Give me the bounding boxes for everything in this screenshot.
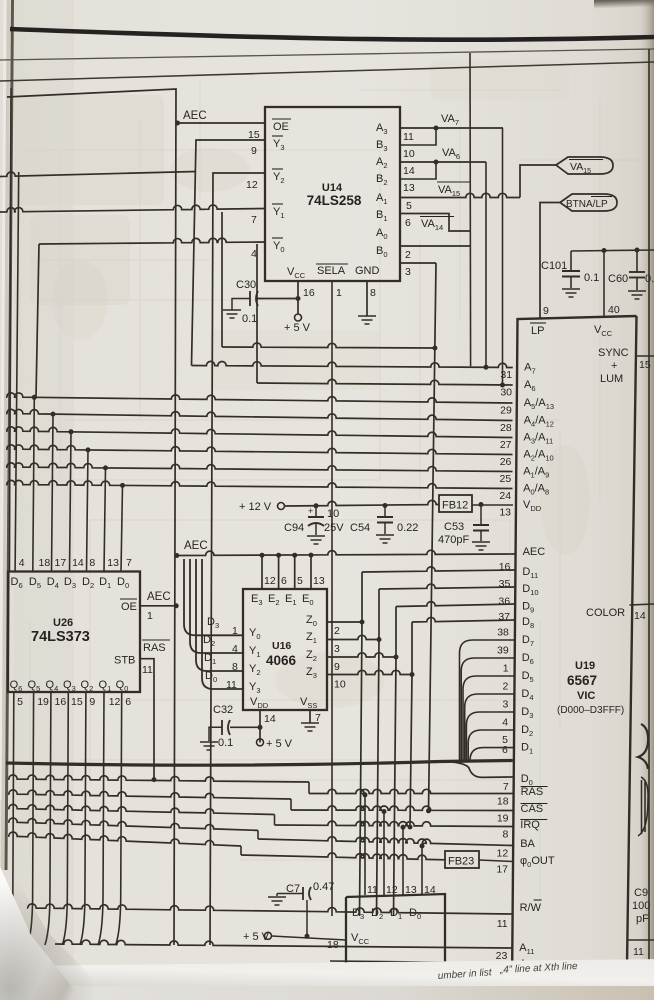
wire R/W row — [28, 904, 513, 914]
node Z0 junction — [360, 620, 365, 625]
node Y1 loop tie — [432, 346, 437, 351]
thick top rule — [10, 29, 654, 40]
wire phi0OUT row step-down — [240, 846, 242, 855]
frame rule — [0, 62, 654, 81]
wire D3 input to Y3 — [184, 559, 243, 635]
wire Y1 pin7 (long bus to left edge) — [0, 205, 265, 212]
ferrite bead FB12 — [439, 495, 472, 512]
wire RAS row step-down — [308, 782, 310, 794]
node AEC top junction — [175, 121, 180, 126]
wire D10 vertical — [378, 589, 380, 640]
wire pin14 A2 VA6 net — [400, 161, 486, 163]
wire address bus row 3 — [6, 427, 513, 438]
page left edge — [6, 0, 13, 870]
wire VIC data fan y730 — [468, 730, 514, 760]
node Z3 junction — [410, 672, 415, 677]
wire U26 D-input riser 2 — [52, 414, 54, 571]
wire bottom chip data riser 2 — [383, 812, 385, 896]
wire D0 input to Y0 — [202, 559, 243, 689]
ferrite bead FB23 — [445, 851, 479, 868]
node Z3 net on IRQ row — [408, 825, 413, 830]
wire U26 D-input riser 6 — [121, 486, 123, 572]
wire U26 D-input riser 1 — [33, 397, 35, 571]
node pin11-10 tie — [434, 126, 439, 131]
wire U26 D-input riser 4 — [87, 450, 89, 572]
wire bottom chip data riser 1 — [364, 795, 366, 895]
wire U26 Q6 output — [8, 692, 14, 945]
node bus row 1 junction — [32, 395, 37, 400]
wire U14 Y3 pin9 — [192, 140, 266, 366]
node A6 junction — [500, 383, 505, 388]
wire VCC pin40 — [603, 251, 605, 319]
wire phi0OUT row post-step — [241, 853, 445, 860]
wire U26 Q0 output — [116, 692, 122, 945]
IC bottom buffer box — [346, 894, 445, 1000]
wire pin10 B3 — [400, 128, 436, 145]
wire address bus row 4 — [6, 445, 513, 455]
+12V terminal — [278, 503, 285, 510]
wire Y2 pin12 — [210, 173, 265, 945]
wire address bus row 2 — [6, 409, 513, 420]
node E0 tap — [309, 553, 314, 558]
+5V terminal bottom — [265, 932, 272, 939]
wire U26 Q1 output — [98, 692, 104, 945]
wire VSS pin7 — [309, 710, 311, 723]
wire Z1 net vertical — [377, 640, 380, 917]
svg-text:„4” line at Xth line: „4” line at Xth line — [499, 961, 579, 976]
node riser 1 junction — [363, 792, 368, 797]
wire address bus row 1 — [6, 393, 513, 403]
wire bottom chip data riser 3 — [402, 827, 404, 895]
wire U14 GND pin8 — [366, 281, 368, 316]
wire A6 vertical to pin30 — [502, 128, 504, 385]
wire pin3 B0 long vertical — [400, 262, 436, 264]
wire Z2 out — [327, 653, 396, 657]
cable brace lower — [638, 777, 648, 836]
wire VIC data fan y658 — [461, 658, 515, 760]
wire RAS row pre-step — [8, 775, 309, 782]
wire A10 row partial — [330, 961, 512, 963]
wire U26 Q3 output — [62, 692, 68, 945]
wire VDD pin14 — [259, 710, 261, 743]
wire VIC data fan y747.6 — [470, 748, 514, 761]
wire VIC data fan y640 — [460, 640, 515, 760]
wire VA15 flag riser — [520, 165, 556, 198]
+5V terminal U14 — [295, 314, 302, 321]
IC U19 6567 VIC box — [512, 316, 637, 988]
wire A11 row — [55, 940, 512, 948]
wire pin 11 right stub — [628, 939, 654, 941]
ground VSS — [301, 722, 319, 724]
wire U16 enable riser pin12 — [261, 555, 263, 589]
thin rule under top — [0, 49, 654, 60]
wire BA row post-step — [258, 837, 513, 846]
wire VIC data fan y676 — [463, 676, 515, 760]
wire right edge vertical bus — [648, 49, 650, 968]
wire A7 vertical to pin31 — [485, 162, 487, 367]
wire U26 Q4 output — [45, 692, 51, 945]
wire CAS row post-step — [291, 806, 513, 811]
wire AEC top feed — [7, 89, 176, 945]
wire Z2 net vertical — [394, 657, 397, 916]
wire IRQ row pre-step — [8, 804, 275, 814]
wire VIC data fan y694 — [465, 694, 515, 760]
wire +12V rail — [285, 500, 440, 506]
wire Z0 out — [327, 621, 362, 623]
wire U16 enable riser pin6 — [278, 555, 280, 589]
wire CAS row step-down — [290, 799, 292, 810]
wire D11 vertical — [361, 572, 363, 622]
wire U26 D-input riser 3 — [70, 432, 72, 572]
wire pin13 B2 — [400, 162, 436, 179]
node pin3 on CAS row — [426, 808, 431, 813]
IC U26 74LS373 box — [8, 572, 140, 693]
wire bottom chip data riser 4 — [421, 846, 423, 895]
node AEC bus left — [174, 553, 179, 558]
ground U14 pin8 — [358, 315, 376, 317]
wire D10 row — [379, 584, 515, 589]
wire VIC data fan y712 — [466, 712, 514, 760]
node A7 junction — [484, 365, 489, 370]
wire D11 row — [362, 567, 515, 572]
node STB on RAS row — [152, 777, 157, 782]
+5V terminal U16 — [257, 739, 264, 746]
node E2 tap — [276, 553, 281, 558]
wire pin2 A0 net — [469, 53, 472, 366]
node E1 tap — [292, 553, 297, 558]
wire Z1 out — [327, 635, 379, 639]
wire +5V into bottom chip — [272, 936, 347, 940]
connector flag VA15 — [556, 157, 613, 174]
wire CAS row pre-step — [8, 790, 291, 799]
wire STB net — [140, 659, 154, 780]
wire Z3 net vertical — [410, 675, 412, 828]
wire D9 vertical — [395, 607, 397, 658]
wire U16 enable riser pin5 — [294, 555, 296, 589]
wire address bus row 5 — [6, 463, 513, 472]
wire D8 row — [412, 617, 515, 622]
wire OE to AEC net — [140, 605, 176, 607]
wire BTNA/LP to LP pin9 — [540, 203, 560, 319]
wire U26 Q5 output — [28, 692, 34, 945]
wire D1 input to Y1 — [196, 559, 243, 671]
wire U26 Q2 output — [80, 692, 86, 945]
node Z2 junction — [394, 655, 399, 660]
node bus row 5 junction — [103, 465, 108, 470]
wire D8 vertical — [411, 622, 413, 675]
wire phi0OUT row pre-step — [8, 832, 241, 846]
wire Y0 pin4 — [39, 238, 265, 244]
wire D2 input to Y2 — [190, 559, 243, 653]
wire Z3 out — [327, 670, 412, 674]
wire pin5 A1 VA15 net — [400, 193, 520, 197]
wire far-left vertical — [10, 88, 12, 571]
wire BA row pre-step — [8, 818, 258, 830]
node riser 4 junction — [420, 844, 425, 849]
wire pin11 A3 VA7 net — [400, 127, 503, 129]
page right edge shading — [640, 0, 654, 1000]
wire IRQ row step-down — [274, 815, 276, 826]
wire heavy data bus row — [6, 761, 513, 766]
node bus row 2 junction — [51, 412, 56, 417]
wire U16 enable riser pin13 — [310, 555, 312, 589]
connector flag BTNA/LP — [560, 194, 617, 211]
wire U14 OE pin15 — [178, 122, 266, 124]
wire AEC bus — [177, 550, 515, 555]
wire U26 D6 riser pin4 — [15, 172, 19, 572]
wire Z0 net vertical — [360, 622, 363, 916]
wire net A6 row pin30 from Y0 — [256, 244, 258, 383]
node OE-AEC junction — [174, 603, 179, 608]
node Z1 junction — [377, 637, 382, 642]
cable brace upper — [638, 724, 648, 769]
wire upper-left horizontal — [0, 172, 196, 177]
wire U26 D-input riser 5 — [104, 468, 106, 572]
wire D9 row — [396, 602, 515, 607]
wire U14 VCC pin16 — [297, 281, 299, 314]
wire U14 SELA pin1 vertical — [331, 281, 333, 916]
node C53 tap — [479, 502, 484, 507]
wire net A7 row pin31 from Y3 — [192, 361, 513, 367]
node riser 3 junction — [401, 825, 406, 830]
faint reverse-side bleed ghosts — [20, 80, 640, 900]
wire Y1 loop to pin3 vert — [221, 212, 223, 347]
IC U16 4066 box — [243, 589, 327, 710]
wire FB12 to VDD pin13 — [472, 504, 513, 506]
node E3 tap — [260, 553, 265, 558]
IC U14 74LS258 box — [265, 107, 400, 281]
wire address bus row 6 — [6, 480, 513, 488]
node bus row 3 junction — [69, 429, 74, 434]
wire VCC rail above VIC — [571, 250, 654, 251]
wire D0 branch off bus — [452, 762, 513, 777]
wire FB23 out — [479, 860, 513, 862]
wire IRQ row post-step — [275, 821, 513, 826]
wire RAS row post-step — [309, 789, 513, 793]
node riser 2 junction — [382, 809, 387, 814]
node C7 on +5V wire — [305, 934, 310, 939]
wire pin6 B1 VA14 jog — [400, 214, 470, 232]
wire BA row step-down — [257, 830, 259, 839]
node bus row 4 junction — [86, 447, 91, 452]
wire pin15 SYNC out — [635, 355, 654, 357]
wire pin14 COLOR out — [630, 604, 654, 605]
node pin14-13 tie — [434, 160, 439, 165]
svg-text:umber in list: umber in list — [437, 967, 493, 982]
node bus row 6 junction — [120, 483, 125, 488]
node VDD C32 — [258, 725, 263, 730]
node C30 junction — [296, 296, 301, 301]
